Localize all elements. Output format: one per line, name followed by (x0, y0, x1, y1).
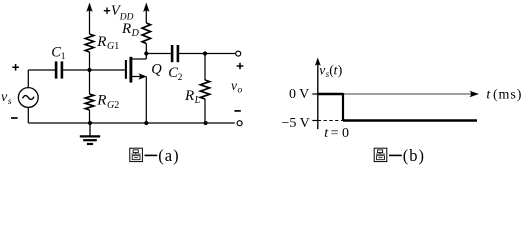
svg-text:v: v (319, 62, 325, 77)
svg-text:= 0: = 0 (331, 126, 349, 141)
svg-text:(a): (a) (158, 146, 179, 165)
svg-text:): ) (338, 62, 343, 77)
svg-text:G: G (107, 41, 114, 52)
svg-text:(b): (b) (403, 146, 425, 165)
svg-text:1: 1 (114, 41, 119, 52)
svg-text:s: s (8, 97, 12, 107)
svg-text:C: C (51, 44, 61, 60)
svg-text:2: 2 (114, 100, 119, 111)
svg-text:R: R (184, 88, 194, 104)
svg-text:v: v (231, 78, 237, 93)
svg-text:−5 V: −5 V (282, 116, 310, 131)
svg-text:D: D (131, 28, 140, 39)
svg-text:R: R (96, 93, 106, 109)
svg-text:1: 1 (61, 52, 66, 62)
svg-text:0 V: 0 V (289, 87, 309, 102)
svg-text:L: L (194, 95, 201, 106)
svg-text:G: G (107, 100, 114, 111)
svg-text:R: R (121, 21, 131, 37)
svg-text:2: 2 (178, 73, 183, 83)
svg-text:R: R (96, 34, 106, 50)
svg-text:Q: Q (151, 61, 162, 77)
svg-text:(ms): (ms) (493, 87, 522, 102)
svg-text:o: o (238, 86, 243, 96)
